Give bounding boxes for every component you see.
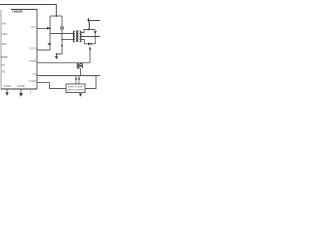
svg-text:OUTA: OUTA [29,47,36,51]
svg-text:PGND: PGND [17,84,25,88]
svg-text:AGND: AGND [3,84,11,88]
svg-text:SS: SS [2,70,6,74]
svg-text:OUTB: OUTB [29,59,36,63]
svg-text:RT: RT [2,63,6,67]
svg-text:LM5025: LM5025 [12,10,23,14]
svg-text:AND ISOLATION: AND ISOLATION [67,89,84,92]
svg-text:COMP: COMP [28,79,36,83]
svg-text:OVP: OVP [2,42,7,46]
svg-text:RAMP: RAMP [1,55,8,59]
svg-text:VCC: VCC [31,25,37,29]
svg-text:VIN: VIN [2,21,7,25]
svg-text:UVLO: UVLO [2,32,8,36]
svg-text:ERROR AMP: ERROR AMP [68,85,84,88]
svg-text:CS: CS [33,72,37,76]
